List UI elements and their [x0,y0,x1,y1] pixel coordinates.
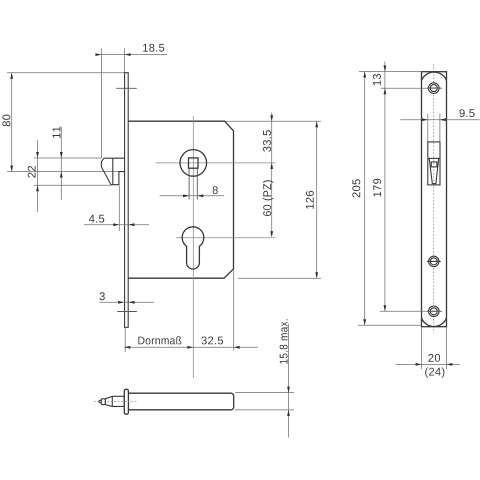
horizontal centerline cylinder [176,237,276,239]
bar top extension (15.8) [235,392,294,394]
dimension line 4.5 [84,224,149,226]
trigger (front view) [101,158,124,185]
middle screw hole [429,256,439,266]
arrow 4.5 left [113,223,119,226]
extension line trigger step (80 bottom / 11 bottom) [7,171,119,173]
label 32.5 [202,337,224,345]
label 80 [2,115,10,127]
label 205 [352,179,360,197]
trigger cylinder side view [105,396,124,406]
extension plate bottom (205 bottom) [358,324,422,326]
label 9.5 [460,109,475,117]
arrow 8 right [197,194,203,197]
dashed centerline faceplate [433,64,435,333]
faceplate (edge-on, front view) [125,73,129,328]
trigger nose tip [99,400,101,403]
arrow 3 right [129,301,135,304]
arrow 205 top [363,72,366,78]
hook funnel bottom [432,183,436,185]
arrow 8 left [183,194,189,197]
arrow 9.5 left [422,118,428,121]
arrow 60 bottom [270,231,273,237]
faceplate outline [422,72,447,327]
hook pin square [431,162,437,167]
dimension line 80 [11,73,13,172]
arrow 11 top [60,152,63,158]
screw axis tick bottom [117,311,137,313]
dimension line 9.5 [400,119,479,121]
arrow 126 top [315,121,318,127]
case right extension below (32.5 right) [233,271,235,351]
arrow 13 top [384,66,387,72]
arrow 205 bottom [363,319,366,325]
faceplate flange side view [124,389,128,414]
follower circle [180,150,207,177]
arrow Dornmass right / 32.5 left [187,346,193,349]
bar bottom extension (15.8) [235,409,294,411]
arrow 15.8 top [287,387,290,393]
extension line case bottom right (126 bottom) [238,277,321,279]
label 60 (PZ) [263,180,274,216]
square extension left (8) [188,169,190,200]
extension line faceplate top (80 top) [7,72,125,74]
hook bolt box [428,142,440,185]
dimension line 3 [99,301,153,303]
dimension line 8 [160,195,225,197]
trigger step face extension (4.5) [118,185,120,231]
dimension line 15.8 max [288,324,290,438]
arrow 33.5 bottom [270,163,273,169]
dimension line 205 [364,72,366,326]
hook funnel left [429,158,432,183]
extension plate width right (20) [445,327,447,369]
label (24) [425,367,444,377]
trigger nose stub [101,399,105,405]
arrow 80 top [10,73,13,79]
label 4.5 [89,215,104,223]
trigger cone edge [111,396,113,406]
label 126 [306,191,314,209]
dimension line 126 [316,121,318,278]
arrow 126 bottom [315,272,318,278]
arrow 11 bottom [60,172,63,178]
dimension line 18.5 [96,54,167,56]
case bar side view [128,393,233,410]
dimension line 33.5 / 60 PZ [271,113,273,237]
hook slot edge left [427,114,429,142]
hook funnel right [436,158,439,183]
bottom screw hole [429,306,440,317]
screw axis tick top [116,87,137,89]
dashed axis side view [94,401,137,403]
bottom screw slot [427,310,441,312]
arrow 3 left [118,301,124,304]
arrow 18.5 right [125,53,131,56]
top screw slot [427,87,441,89]
lock case outline [128,121,233,278]
extension bottom screw axis (179 bottom) [380,310,443,312]
dimension line Dornmass / 32.5 [124,346,258,348]
hook slot edge right [439,114,441,142]
middle screw slot [427,260,441,262]
label Dornmass [138,336,181,344]
extension line trigger tip plane (18.5 left) [100,49,102,159]
label 8 [213,186,218,194]
arrow 80 bottom [10,166,13,172]
top screw hole [429,83,440,94]
label 22 [28,166,36,178]
arrow 179 bottom [384,305,387,311]
extension line faceplate left (18.5 right) [124,49,126,73]
arrow 4.5 right [128,223,134,226]
label 15.8 max. [280,319,288,363]
trigger inner edge [112,158,114,185]
label 3 [100,292,105,300]
hook box inner line [428,157,440,159]
arrow 20 right [446,363,452,366]
vertical centerline (lock axis) [192,116,194,378]
dimension line 13 / 179 [384,62,386,312]
arrow 18.5 left [95,53,101,56]
square extension right (8) [196,169,198,200]
dimension line 22 [37,140,39,212]
horizontal centerline follower [156,162,276,164]
label 179 [373,179,381,197]
dimension line 11 [60,127,62,200]
label 11 [53,127,61,138]
label 20 [428,354,440,362]
dimension line 20 [396,363,461,365]
extension line trigger bottom (22 bottom) [34,184,111,186]
label 13 [373,74,381,85]
PZ cylinder keyhole [182,227,204,269]
top rounded end arc [422,72,447,80]
label 18.5 [143,44,164,52]
bottom rounded end arc [422,318,447,327]
extension top screw axis (13 bottom / 179 top) [381,87,443,89]
arrow 15.8 bottom [287,410,290,416]
arrow 22 top [36,152,39,158]
extension plate width left (20) [421,327,423,369]
arrow 33.5 top [270,115,273,121]
arrow 13 bottom / 179 top [384,88,387,94]
follower square (8mm) [189,158,199,168]
extension line case top right (33.5/126 top) [226,120,321,122]
arrow 20 left [416,363,422,366]
extension plate top left (13/205 top) [359,71,422,73]
arrow Dornmass left [124,346,130,349]
faceplate left extension below (Dornmass left) [124,328,126,352]
extension line trigger top (11/22 top) [34,157,102,159]
arrow 9.5 right [440,118,446,121]
label 33.5 [263,130,271,152]
arrow 22 bottom [36,185,39,191]
arrow 32.5 right [234,346,240,349]
